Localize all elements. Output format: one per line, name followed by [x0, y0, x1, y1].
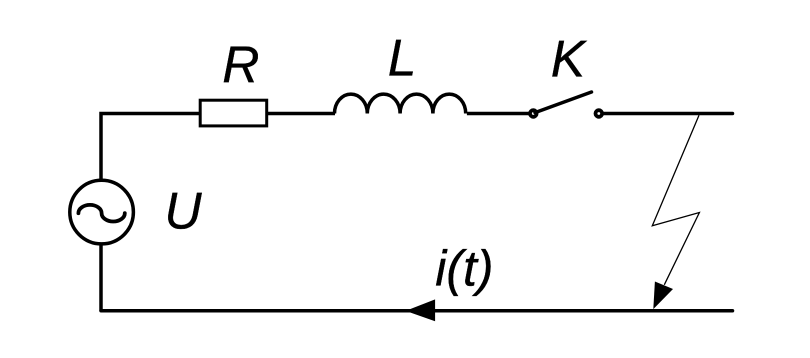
current arrow on bottom wire [406, 299, 436, 321]
svg-text:i(t): i(t) [435, 241, 493, 297]
lightning discharge line [652, 115, 699, 284]
resistor R [200, 100, 267, 126]
wire inductor to switch [467, 112, 529, 116]
lightning arrowhead [653, 282, 673, 310]
voltage source sine wave [78, 205, 124, 222]
switch K blade [535, 92, 592, 113]
wire switch to right end [604, 112, 732, 116]
switch K left contact [530, 110, 537, 117]
bottom wire [101, 309, 733, 313]
svg-text:K: K [551, 30, 588, 88]
voltage source U circle [70, 180, 134, 244]
svg-text:L: L [388, 28, 417, 86]
wire resistor to inductor [267, 112, 335, 116]
svg-text:R: R [222, 36, 259, 94]
inductor L [335, 94, 466, 113]
wire top-left horizontal + left vertical upper [101, 114, 200, 181]
svg-text:U: U [164, 181, 202, 239]
left vertical lower wire [99, 244, 103, 310]
switch K right contact [596, 110, 603, 117]
